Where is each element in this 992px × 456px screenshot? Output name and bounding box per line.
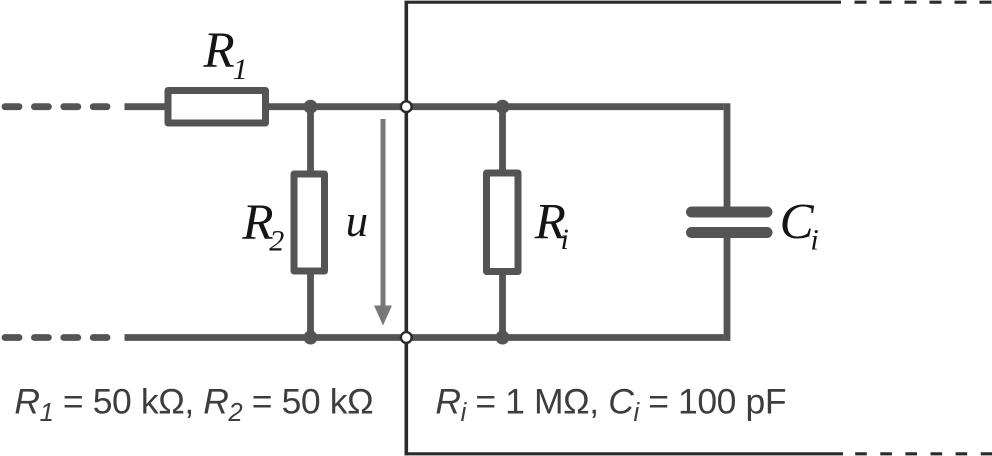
wire: R2 bottom lead	[307, 260, 314, 338]
wire: capacitor bottom lead	[724, 230, 731, 341]
wire: top-left dashed lead	[5, 103, 107, 110]
wire: top rail from R1 to capacitor branch	[266, 103, 724, 110]
svg-text:2: 2	[269, 225, 284, 258]
junction node top Ri	[496, 100, 510, 114]
wire: bottom rail	[125, 334, 724, 341]
boundary line: top solid	[405, 1, 842, 4]
svg-text:i: i	[810, 224, 818, 257]
terminal node bottom (open)	[401, 332, 412, 343]
svg-text:R: R	[203, 23, 235, 79]
boundary line: bottom solid	[405, 452, 844, 455]
svg-text:u: u	[346, 196, 369, 246]
junction node bottom Ri	[496, 331, 510, 345]
svg-text:R1 = 50 kΩ, R2 = 50 kΩ: R1 = 50 kΩ, R2 = 50 kΩ	[14, 382, 373, 428]
boundary line: left vertical	[404, 2, 408, 455]
wire: Ri bottom lead	[499, 260, 506, 338]
resistor R2	[294, 174, 325, 271]
svg-text:i: i	[561, 223, 569, 256]
wire: Ri top lead	[499, 107, 506, 185]
svg-text:Ri = 1 MΩ, Ci = 100 pF: Ri = 1 MΩ, Ci = 100 pF	[435, 382, 786, 428]
boundary line: bottom dashed	[855, 452, 992, 455]
wire: capacitor top lead	[724, 103, 731, 208]
junction node bottom R2	[304, 331, 318, 345]
svg-text:1: 1	[233, 53, 248, 86]
wire: R2 top lead	[307, 107, 314, 185]
capacitor Ci	[692, 212, 768, 233]
junction node top R2	[304, 100, 318, 114]
svg-text:C: C	[780, 194, 815, 250]
resistor R1	[168, 91, 266, 124]
resistor Ri	[487, 173, 519, 272]
wire: top lead into R1	[125, 103, 171, 110]
boundary line: top dashed	[855, 1, 992, 4]
arrow: voltage u	[374, 119, 392, 326]
wire: bottom-left dashed lead	[5, 334, 107, 341]
terminal node top (open)	[401, 101, 412, 112]
